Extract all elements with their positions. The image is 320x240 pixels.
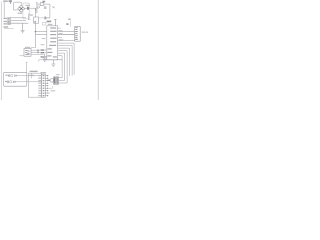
- wire regulator output: [44, 3, 50, 5]
- faint text above transformer: [56, 74, 59, 75]
- buzzer LS1 coil: [50, 79, 54, 83]
- label above regulator: [42, 1, 45, 3]
- capacitor C1: [27, 7, 28, 10]
- ground G1: [21, 23, 25, 33]
- CN1 stub 5: [45, 85, 48, 87]
- wire to bridge top: [14, 2, 22, 5]
- M1 pin labels: [38, 75, 41, 96]
- net labels right of MCU: [59, 30, 64, 40]
- PS row1 label: [6, 75, 8, 76]
- wire AC line right: [14, 3, 18, 10]
- wire rail aux: [4, 28, 14, 30]
- label right of CN1: [46, 92, 50, 93]
- PS row2 label: [5, 81, 7, 82]
- PS row1 diode: [14, 75, 16, 77]
- bus staircase k6: [58, 56, 62, 78]
- PS row2 diode: [13, 81, 15, 83]
- power entry box PS1: [4, 72, 27, 86]
- wire opto bottom: [31, 54, 45, 56]
- CN1 stub 2: [45, 77, 48, 79]
- crystal Y1: [42, 22, 46, 25]
- resistor R1 circle: [37, 49, 39, 51]
- label left of relay: [47, 80, 50, 81]
- connector CN1 pads: [43, 75, 45, 96]
- MCU pin labels: [47, 24, 56, 58]
- interface box M1: [28, 73, 41, 97]
- LED D1 arrow: [52, 6, 55, 8]
- label row below-left of MCU: [41, 56, 45, 58]
- terminal box contacts: [8, 18, 10, 24]
- ground G2: [43, 55, 47, 62]
- label below relay: [51, 90, 56, 91]
- B1 inner mark: [34, 21, 36, 22]
- wire feed to PS box: [26, 63, 28, 73]
- ground below C4: [35, 11, 37, 14]
- capacitor C2: [45, 6, 46, 9]
- wire rail E: [10, 22, 28, 24]
- MCU bottom wire: [47, 59, 62, 61]
- bus staircase k1: [58, 43, 74, 75]
- bus staircase k3: [58, 48, 70, 76]
- wire bus b to module: [58, 31, 75, 33]
- label left of B1: [30, 14, 33, 15]
- faint net text b: [41, 44, 45, 45]
- wire +5V drop: [44, 4, 50, 18]
- CN1 stub 1: [45, 75, 48, 77]
- CN1 stub 4: [45, 82, 48, 84]
- node plus tick: [35, 9, 36, 10]
- bus staircase k5: [58, 53, 65, 80]
- wire DC bus down: [34, 23, 36, 47]
- label C1: [25, 5, 30, 6]
- ground G3: [51, 60, 55, 67]
- CN1 stub 3: [45, 80, 50, 82]
- transformer core body: [54, 77, 59, 84]
- label GND: [47, 21, 52, 23]
- CN1 stub 7: [45, 90, 48, 92]
- module U4 box: [75, 27, 81, 42]
- capacitor C4 marks: [36, 10, 38, 11]
- label near U5: [68, 19, 70, 20]
- bridge rectifier BR1: [18, 5, 25, 12]
- junction node: [35, 31, 36, 32]
- resistor R2 circle: [37, 52, 39, 54]
- wire main DC drop: [34, 8, 36, 17]
- wire bus c to module: [58, 33, 75, 35]
- CN1 stub 8: [45, 92, 48, 94]
- node +5V tick: [54, 19, 56, 25]
- wire tx: [31, 51, 40, 53]
- fuse F1: [9, 3, 12, 4]
- label inside M1: [29, 75, 34, 76]
- wire to MCU pin2: [35, 34, 46, 36]
- wire left bottom drop: [39, 60, 47, 62]
- MCU U1: [47, 26, 58, 60]
- tick top of riser: [36, 2, 38, 4]
- frame right border: [97, 0, 99, 100]
- CN1 stub 9: [45, 95, 47, 97]
- regulator U2 box: [40, 3, 44, 6]
- wire into regulator: [37, 3, 40, 5]
- label above CN1: [40, 72, 46, 73]
- MCU stub pin d: [58, 37, 62, 39]
- wire opto left: [20, 55, 25, 57]
- label BR1: [18, 13, 23, 14]
- CN1 stub arrows: [47, 75, 48, 77]
- transformer T1 can: [23, 3, 30, 19]
- wire opto in: [31, 48, 35, 49]
- wire riser to fuse box: [36, 3, 38, 9]
- bus staircase k2: [58, 46, 72, 76]
- wire rx: [31, 49, 40, 51]
- PS row1 lamp: [11, 74, 13, 76]
- PS row2 cap ticks: [7, 81, 8, 83]
- frame left border: [0, 2, 2, 100]
- PS row1 cap ticks: [8, 74, 9, 76]
- PS row1 wire: [17, 75, 42, 77]
- PS row2 lamp: [10, 81, 12, 83]
- label above opto: [25, 47, 30, 48]
- CN1 stub 6: [45, 87, 48, 89]
- faint net text a: [42, 38, 46, 39]
- wire inside M1: [31, 73, 33, 78]
- wire rail N: [10, 20, 26, 22]
- wire AC line left: [3, 2, 5, 18]
- inductor L1: [38, 6, 40, 8]
- labels terminal rows: [3, 18, 8, 28]
- wire bus e to module: [58, 40, 75, 42]
- wire VCC module: [69, 20, 71, 26]
- connector CN1 body: [41, 74, 45, 97]
- converter box B1: [34, 17, 39, 23]
- label U5: [66, 23, 68, 24]
- wire stub L up: [48, 86, 52, 88]
- label TXD: [41, 52, 45, 53]
- bus staircase k4: [58, 51, 67, 83]
- transformer core bars: [55, 77, 58, 84]
- PS row2 wire: [15, 81, 41, 83]
- wire y22: [44, 21, 50, 23]
- wire DC rail: [25, 7, 38, 9]
- wire to MCU pin1: [35, 31, 46, 33]
- MCU stub pin a: [58, 27, 61, 29]
- title text top-left: [3, 0, 12, 2]
- wire riser x28: [28, 14, 30, 20]
- wire rail L: [10, 17, 26, 19]
- label above middle box: [30, 71, 38, 72]
- label RXD: [41, 49, 45, 50]
- label module: [82, 32, 86, 33]
- wire box to rail: [39, 17, 50, 19]
- opto contents: [25, 50, 29, 54]
- opto U3 box: [24, 49, 31, 57]
- capacitor C3: [45, 17, 46, 20]
- terminal block J1: [8, 18, 11, 25]
- module U4 pin pads: [75, 27, 78, 40]
